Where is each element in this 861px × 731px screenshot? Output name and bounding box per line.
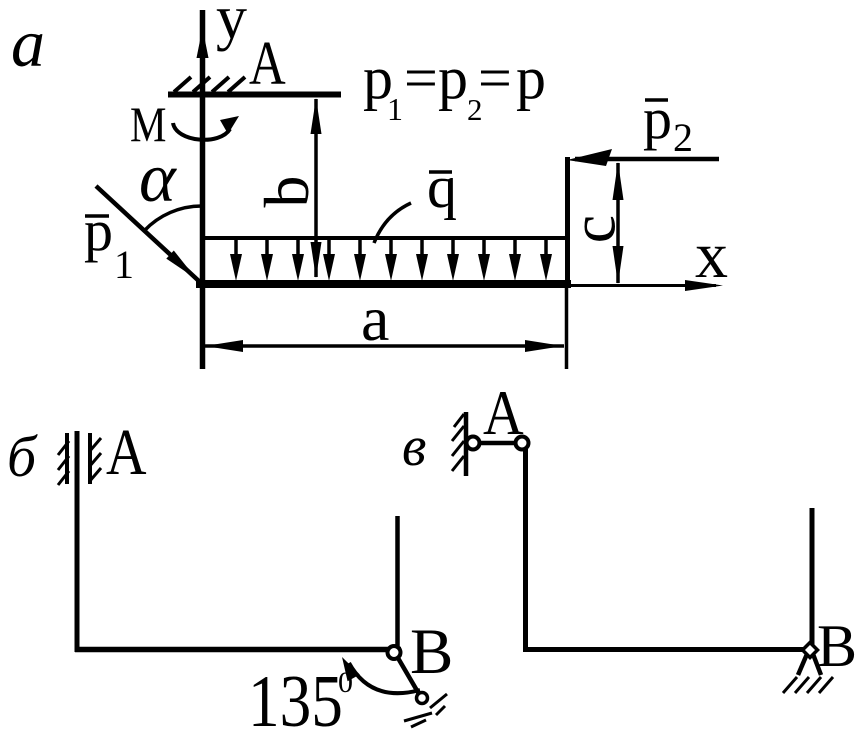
svg-text:y: y xyxy=(216,0,247,52)
svg-text:0: 0 xyxy=(338,666,353,699)
svg-text:p: p xyxy=(516,45,546,111)
svg-text:а: а xyxy=(11,5,45,81)
svg-text:A: A xyxy=(249,29,286,98)
svg-text:135: 135 xyxy=(248,659,343,731)
svg-text:p: p xyxy=(438,45,468,111)
svg-text:α: α xyxy=(139,140,177,217)
svg-text:b: b xyxy=(251,176,322,208)
svg-text:=: = xyxy=(404,45,438,111)
svg-text:B: B xyxy=(817,613,857,679)
svg-text:c: c xyxy=(558,215,629,243)
svg-text:б: б xyxy=(7,424,38,489)
svg-text:q: q xyxy=(427,154,457,220)
svg-text:A: A xyxy=(106,416,147,489)
svg-text:2: 2 xyxy=(673,115,693,160)
svg-text:p: p xyxy=(84,198,113,263)
svg-text:p: p xyxy=(643,86,672,151)
svg-text:A: A xyxy=(483,378,524,449)
svg-text:1: 1 xyxy=(387,91,403,127)
svg-text:x: x xyxy=(695,219,728,292)
svg-text:B: B xyxy=(410,616,453,688)
svg-text:1: 1 xyxy=(114,242,134,287)
svg-text:=: = xyxy=(478,45,512,111)
svg-text:в: в xyxy=(402,416,426,478)
svg-text:a: a xyxy=(361,283,389,354)
